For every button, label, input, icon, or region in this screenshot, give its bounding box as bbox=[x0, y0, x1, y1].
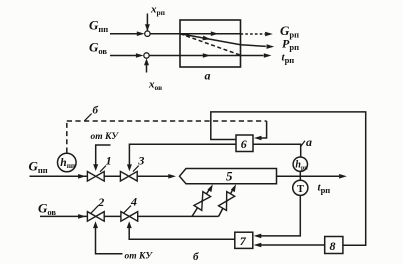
valve 4 (control valve) bbox=[121, 212, 138, 222]
arrowhead into block 6 right bbox=[254, 136, 262, 141]
wire block 8 to block 7 bbox=[260, 244, 325, 246]
wire drop into block 6 right side bbox=[260, 121, 267, 138]
svg-text:от КУ: от КУ bbox=[125, 252, 154, 262]
hand valve on injection 1 bbox=[194, 192, 211, 211]
unit 5 (superheater, pointed block) bbox=[180, 169, 277, 184]
svg-text:7: 7 bbox=[240, 234, 247, 248]
wire block 7 to valve 4 bbox=[129, 225, 235, 240]
valve 3 (control valve) bbox=[120, 171, 137, 181]
svg-text:8: 8 bbox=[330, 239, 336, 253]
arrowhead inside box top line bbox=[211, 31, 219, 36]
block 6 (regulator) bbox=[236, 135, 253, 152]
arrowhead down into valve 1 bbox=[93, 164, 98, 171]
svg-text:2: 2 bbox=[97, 195, 104, 209]
wire G_pp input bbox=[110, 33, 138, 35]
svg-text:6: 6 bbox=[241, 137, 247, 151]
hand valve on injection 2 bbox=[219, 192, 235, 211]
svg-text:Gпп: Gпп bbox=[29, 159, 48, 176]
svg-text:Gпп: Gпп bbox=[89, 18, 108, 35]
svg-text:xов: xов bbox=[148, 79, 162, 93]
wire from block 6 to valve 3 bbox=[129, 144, 236, 165]
block a (object box) bbox=[180, 20, 241, 67]
svg-text:б: б bbox=[93, 105, 99, 117]
svg-text:1: 1 bbox=[106, 154, 112, 168]
dashed correction line б: vertical from sensor h_pp bbox=[66, 121, 68, 153]
node mixing circle 1 bbox=[145, 31, 150, 36]
wire G_rp output (dashed) bbox=[241, 33, 266, 35]
wire between valve 2 and valve 4 bbox=[104, 215, 121, 217]
wire node1 to block a bbox=[150, 33, 180, 35]
wire x_ov vertical bbox=[146, 61, 148, 73]
wire G_pp main steam line bbox=[30, 175, 88, 177]
diagonal dashed line in box bbox=[180, 34, 241, 56]
svg-text:T: T bbox=[297, 184, 304, 195]
diagonal solid line in box (to P_rp) bbox=[180, 34, 266, 47]
sensor h_rp circle bbox=[293, 157, 307, 171]
injection line 1 (diagonal) bbox=[192, 188, 211, 217]
svg-text:б: б bbox=[193, 251, 199, 263]
sensor h_pp circle bbox=[58, 153, 77, 172]
arrowhead x_ov up bbox=[144, 58, 149, 65]
svg-text:5: 5 bbox=[226, 169, 233, 184]
arrowhead t_rp output bbox=[264, 53, 272, 58]
node mixing circle 2 bbox=[144, 53, 149, 58]
tick to label 4 bbox=[123, 206, 131, 214]
svg-text:xрп: xрп bbox=[150, 4, 166, 18]
arrowhead down into valve 3 bbox=[127, 164, 132, 171]
wire t_rp output bbox=[241, 55, 264, 57]
tick to label 3 bbox=[133, 166, 139, 172]
valve 2 (control valve) bbox=[87, 212, 104, 222]
wire x_rp vertical bbox=[146, 14, 148, 31]
wire G_ov input bbox=[110, 55, 137, 57]
arrowhead into block 7 (from T) bbox=[254, 234, 262, 239]
arrowhead before unit 5 bbox=[168, 174, 176, 179]
arrowhead P_rp output bbox=[267, 44, 275, 49]
arrowhead x_rp down bbox=[145, 24, 150, 31]
arrowhead before valve 2 bbox=[78, 214, 86, 219]
dashed correction line б: horizontal run bbox=[67, 120, 267, 122]
arrowhead t_rp (bottom) bbox=[339, 174, 347, 179]
wire through block a bottom bbox=[180, 55, 241, 57]
svg-text:tрп: tрп bbox=[318, 182, 331, 196]
arrowhead before valve 1 bbox=[78, 174, 86, 179]
sensor T circle bbox=[293, 180, 308, 195]
wire through block a top bbox=[180, 33, 241, 35]
svg-text:Gов: Gов bbox=[89, 40, 107, 57]
wire between valve 1 and valve 3 bbox=[104, 175, 120, 177]
wire node2 to block a bbox=[149, 55, 180, 57]
wire ot KU to valve 1 bbox=[96, 145, 111, 165]
arrowhead G_pp bbox=[137, 31, 145, 36]
arrowhead on solid diagonal in box bbox=[203, 36, 211, 41]
arrowhead into unit 5 (injection 2) bbox=[231, 184, 236, 192]
wire between sensors crossing steam line bbox=[299, 171, 301, 180]
svg-text:4: 4 bbox=[130, 195, 137, 209]
block 7 (regulator) bbox=[235, 232, 253, 248]
tick to label 1 bbox=[100, 166, 106, 172]
svg-text:a: a bbox=[205, 69, 211, 83]
valve 1 (control valve) bbox=[87, 172, 104, 182]
injection line 2 (diagonal) bbox=[219, 188, 234, 217]
wire block 6 to outer loop bbox=[211, 112, 366, 245]
svg-text:от КУ: от КУ bbox=[91, 132, 120, 142]
arrowhead up into valve 4 bbox=[127, 221, 132, 228]
arrowhead into unit 5 (injection 1) bbox=[208, 184, 213, 192]
tick to label a (node a) bbox=[301, 141, 305, 146]
svg-text:tрп: tрп bbox=[282, 52, 295, 66]
tick to label б (top) bbox=[85, 114, 92, 121]
wire ot KU to valve 2 (bottom) bbox=[96, 225, 123, 254]
block 8 (corrector) bbox=[325, 237, 343, 254]
arrowhead into block 7 (from 8) bbox=[254, 243, 262, 248]
arrowhead inside box bottom line bbox=[203, 53, 211, 58]
svg-text:a: a bbox=[306, 135, 312, 149]
wire G_ov line to injection risers bbox=[138, 215, 219, 217]
tick to label 2 bbox=[91, 206, 99, 214]
arrowhead G_ov bbox=[136, 53, 144, 58]
wire G_ov water line bbox=[40, 215, 87, 217]
wire sensor T to block 7 bbox=[260, 195, 301, 236]
wire valve 3 to unit 5 bbox=[137, 175, 169, 177]
arrowhead up into valve 2 bbox=[93, 221, 98, 228]
wire unit 5 to t_rp output bbox=[277, 175, 340, 177]
wire block 6 to node a bbox=[253, 144, 301, 157]
svg-text:3: 3 bbox=[137, 154, 144, 168]
svg-text:Gов: Gов bbox=[38, 201, 56, 218]
arrowhead G_rp output bbox=[265, 32, 273, 37]
